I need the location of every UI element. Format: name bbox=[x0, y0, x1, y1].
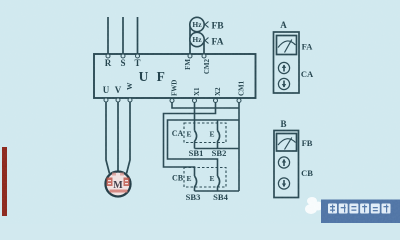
watermark logo bbox=[305, 197, 323, 214]
button up B bbox=[278, 157, 289, 168]
watermark banner bbox=[321, 200, 400, 224]
button up A bbox=[278, 62, 289, 73]
wire V to motor bbox=[117, 102, 119, 172]
watermark text blocks bbox=[328, 204, 391, 214]
red bar left edge bbox=[2, 147, 7, 216]
wire station loop top bbox=[168, 120, 240, 176]
terminal X1 bbox=[193, 87, 202, 103]
terminal R bbox=[105, 54, 112, 68]
meter FA bbox=[277, 36, 297, 55]
terminal FM bbox=[184, 54, 192, 70]
pushbutton SB3 contact bbox=[195, 176, 197, 191]
wire input line R bbox=[107, 17, 109, 54]
terminal V bbox=[115, 85, 122, 102]
button down A bbox=[278, 78, 289, 89]
node FB arrow bbox=[205, 22, 224, 32]
station B panel bbox=[274, 119, 313, 198]
wire FWD riser bbox=[172, 102, 239, 108]
wire U to motor bbox=[106, 102, 110, 174]
wire X1 riser to SB1 bbox=[194, 102, 196, 131]
meter FB bbox=[277, 134, 297, 152]
wire CM1 riser bbox=[238, 102, 240, 191]
wire input line S bbox=[122, 17, 124, 54]
terminal T bbox=[134, 54, 140, 68]
wire X2 riser left bbox=[164, 102, 216, 176]
station A panel bbox=[274, 20, 314, 93]
terminal FWD bbox=[170, 80, 179, 103]
Hz meter upper (station B) bbox=[190, 17, 204, 31]
wire input line T bbox=[137, 17, 139, 54]
terminal CM1 bbox=[237, 80, 246, 102]
dashed box CA unit bbox=[184, 123, 226, 143]
wire bus1 to CM1 bbox=[195, 148, 240, 150]
pushbutton SB2 contact bbox=[218, 131, 220, 149]
dashed box CB unit bbox=[184, 168, 226, 188]
panel A enclosure bbox=[274, 32, 300, 93]
pushbutton SB1 contact bbox=[195, 131, 197, 149]
terminal CM2 bbox=[202, 54, 211, 74]
node FA arrow bbox=[205, 38, 224, 48]
red watermark stamp on motor bbox=[107, 173, 130, 193]
button down B bbox=[278, 178, 289, 189]
wire SB2 top stub bbox=[217, 120, 219, 131]
motor M bbox=[106, 172, 131, 197]
wire CM2 to Hz meters bbox=[203, 40, 205, 55]
inverter UF box bbox=[94, 54, 256, 98]
pushbutton SB4 contact bbox=[218, 176, 220, 191]
wire FM to Hz meters bbox=[189, 25, 191, 55]
wire bus2 to CM1 bbox=[195, 190, 240, 192]
panel B enclosure bbox=[274, 131, 299, 198]
terminal U bbox=[103, 85, 110, 102]
wire W to motor bbox=[127, 102, 131, 174]
terminal S bbox=[120, 54, 125, 68]
terminal X2 bbox=[214, 87, 223, 103]
Hz meter lower (station A) bbox=[190, 32, 204, 46]
terminal W bbox=[125, 82, 134, 102]
